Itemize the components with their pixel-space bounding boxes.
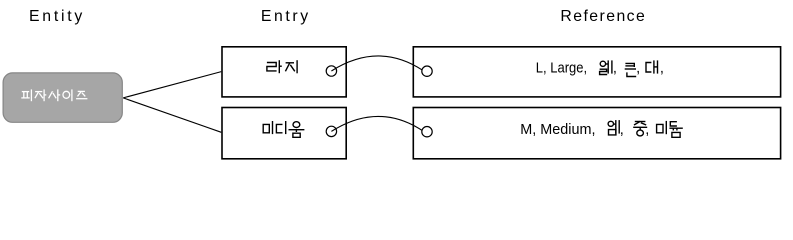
entry label 라지 xyxy=(267,60,297,73)
column header: Entry xyxy=(261,8,308,25)
reference box 2 (M, Medium...) xyxy=(413,108,780,159)
svg-text:,: , xyxy=(636,60,640,76)
reference box 1 (L, Large...) xyxy=(413,47,780,97)
svg-text:,: , xyxy=(660,60,664,76)
hangul glyph 듐 xyxy=(669,122,682,138)
hangul glyph 대 xyxy=(646,60,658,73)
port circle: entry 미디움 right xyxy=(326,126,336,136)
svg-text:M, Medium,: M, Medium, xyxy=(520,122,595,138)
hangul glyph 피 xyxy=(21,89,31,101)
port circle: entry 라지 right xyxy=(326,66,336,76)
svg-text:,: , xyxy=(620,122,624,138)
port circle: reference row2 left xyxy=(422,127,432,137)
entity box (피자사이즈) xyxy=(3,73,122,122)
hangul glyph 지 xyxy=(285,60,297,73)
entity label text 피자사이즈 (white hangul) xyxy=(21,89,87,101)
hangul glyph 미 xyxy=(263,121,272,134)
entry box 1 (라지) xyxy=(222,47,346,97)
hangul glyph 미 xyxy=(657,121,667,134)
hangul glyph 움 xyxy=(289,122,305,138)
column header: Entity xyxy=(29,8,82,25)
hangul glyph 큰 xyxy=(625,63,637,76)
svg-text:L, Large,: L, Large, xyxy=(536,60,587,76)
port circle: reference row1 left xyxy=(422,66,432,76)
column header: Reference xyxy=(560,8,645,25)
hangul glyph 중 xyxy=(633,121,647,136)
svg-text:Reference: Reference xyxy=(560,8,645,25)
link arc: 미디움 to reference row2 xyxy=(331,116,422,131)
hangul glyph 즈 xyxy=(76,91,87,98)
hangul glyph 엘 xyxy=(600,60,612,74)
wire: entity to entry 라지 xyxy=(123,72,221,98)
reference text row 1: L, Large, 엘, 큰, 대, xyxy=(536,60,664,76)
hangul glyph 디 xyxy=(276,121,285,134)
entry box 2 (미디움) xyxy=(222,108,346,159)
hangul glyph 이 xyxy=(63,89,72,101)
reference text row 2: M, Medium, 엠, 중, 미듐 xyxy=(520,120,683,138)
hangul glyph 라 xyxy=(267,60,282,73)
hangul glyph 자 xyxy=(35,89,46,101)
link arc: 라지 to reference row1 xyxy=(331,56,422,71)
svg-text:,: , xyxy=(645,122,649,138)
svg-text:Entry: Entry xyxy=(261,8,308,25)
hangul glyph 엠 xyxy=(608,120,619,135)
svg-text:,: , xyxy=(613,60,617,76)
wire: entity to entry 미디움 xyxy=(123,98,221,132)
entry label 미디움 xyxy=(263,121,304,137)
svg-text:Entity: Entity xyxy=(29,8,82,25)
hangul glyph 사 xyxy=(49,89,61,101)
